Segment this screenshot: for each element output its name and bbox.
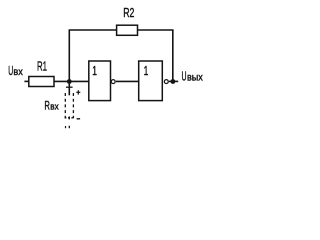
wire feedback right vertical	[172, 30, 174, 81]
gate U1 (logic inverter box)	[89, 61, 111, 101]
svg-text:R2: R2	[123, 5, 134, 20]
wire input stub	[24, 80, 28, 82]
svg-text:1: 1	[144, 63, 149, 78]
wire output stub	[169, 80, 178, 82]
wire small dash left of stub	[65, 126, 67, 128]
gate U2 (logic inverter box)	[139, 61, 163, 101]
wire feedback left vertical	[68, 30, 70, 81]
svg-text:R: R	[44, 98, 50, 112]
svg-text:вых: вых	[187, 72, 203, 84]
node Uvx input label	[8, 63, 23, 78]
svg-text:R1: R1	[37, 58, 47, 73]
resistor Rvx left edge (dashed)	[64, 93, 66, 118]
gate U2 inversion bubble	[164, 80, 168, 84]
wire gate U1 output to gate U2 input	[116, 80, 139, 82]
minus polarity mark	[77, 118, 81, 120]
resistor R2	[117, 25, 138, 35]
node junction left (input node)	[67, 79, 72, 84]
wire feedback top left	[69, 29, 117, 31]
resistor Rvx bottom edge (dashed)	[65, 117, 75, 119]
svg-text:U: U	[182, 69, 187, 84]
resistor Rvx right edge (dashed)	[72, 93, 74, 118]
resistor R1	[29, 77, 54, 87]
node Uvyx output label	[182, 69, 204, 84]
resistor Rvx (dashed phantom) top edge	[66, 86, 73, 88]
wire R1 to gate U1 input	[54, 80, 90, 82]
label Rvx	[44, 98, 59, 112]
wire to Rvx element (solid, down from input node)	[68, 83, 70, 95]
gate U1 inversion bubble	[111, 80, 115, 84]
plus polarity mark	[76, 90, 80, 94]
node junction right (output node)	[171, 79, 176, 84]
svg-text:1: 1	[92, 63, 97, 78]
wire feedback top right	[138, 29, 174, 31]
wire below Rvx (dashed stub)	[68, 116, 70, 128]
svg-text:вх: вх	[50, 101, 59, 112]
svg-text:вх: вх	[13, 66, 23, 78]
